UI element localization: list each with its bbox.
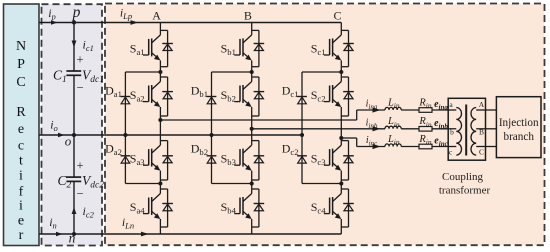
inductor L_in (phase a) bbox=[385, 107, 401, 110]
IGBT switch Sb2 with antiparallel diode bbox=[234, 77, 264, 116]
current arrow i_o bbox=[58, 133, 65, 138]
label C1 bbox=[53, 68, 67, 86]
label + (C2) bbox=[76, 159, 83, 173]
wire: clamp branch Db to node2 bbox=[212, 183, 252, 185]
wire: clamp branch vertical Da bbox=[124, 72, 126, 184]
current arrow i_Ln bbox=[141, 232, 149, 237]
wire: L_in to R_in (phase c) bbox=[401, 146, 419, 148]
label R_in (phase a) bbox=[418, 97, 432, 110]
wire: node to clamp branch Dc bbox=[302, 71, 341, 73]
label i_Lp bbox=[120, 6, 132, 22]
junction node Sc3-Sc4 bbox=[339, 181, 343, 185]
label Dc1 bbox=[282, 84, 299, 100]
IGBT switch Sb3 with antiparallel diode bbox=[234, 141, 264, 180]
wire: transformer C to injection branch bbox=[486, 146, 497, 148]
junction node Sb1-Sb2 bbox=[250, 70, 254, 74]
label L_in (phase b) bbox=[387, 116, 400, 129]
label Dc2 bbox=[282, 142, 299, 158]
current arrow i_Lp bbox=[131, 20, 139, 25]
label - (C2) bbox=[76, 186, 83, 200]
phase c output node bbox=[339, 136, 343, 140]
transformer secondary winding bbox=[471, 108, 476, 156]
node p bbox=[72, 20, 76, 24]
wire: transformer B to injection branch bbox=[486, 128, 497, 130]
IGBT switch Sc2 with antiparallel diode bbox=[324, 77, 354, 116]
transformer primary winding bbox=[456, 108, 461, 156]
label o bbox=[65, 134, 72, 149]
node C top label bbox=[333, 9, 341, 23]
wire: o to C2 bbox=[73, 135, 75, 177]
svg-text:Injection: Injection bbox=[499, 117, 539, 129]
IGBT switch Sa3 with antiparallel diode bbox=[143, 141, 173, 180]
wire: L_in to R_in (phase a) bbox=[401, 109, 419, 111]
wire: phase a output bbox=[160, 110, 385, 120]
wire: negative rail n bbox=[39, 233, 341, 235]
wire: Sa3 to Sa4 bbox=[159, 180, 161, 189]
svg-text:Coupling: Coupling bbox=[442, 171, 483, 183]
label e_inc bbox=[434, 136, 447, 149]
label Sb3 bbox=[221, 152, 236, 168]
wire: rail p to Sc1 bbox=[340, 23, 342, 31]
node o bbox=[72, 133, 76, 137]
svg-text:B: B bbox=[244, 9, 252, 23]
label i_ina bbox=[366, 99, 378, 112]
junction clamp-c to neutral rail bbox=[300, 133, 304, 137]
junction clamp-b to neutral rail bbox=[209, 133, 213, 137]
label i_o bbox=[50, 118, 58, 134]
svg-text:i: i bbox=[19, 169, 23, 184]
svg-text:+: + bbox=[76, 53, 83, 67]
label i_n bbox=[49, 215, 57, 231]
wire: rail p to Sa1 bbox=[159, 23, 161, 31]
capacitor C2 bbox=[66, 177, 81, 181]
clamp diode Db2 bbox=[207, 156, 217, 163]
clamp diode Dc1 bbox=[297, 97, 307, 104]
label Coupling transformer bbox=[439, 171, 491, 196]
node A top label bbox=[152, 9, 161, 23]
IGBT switch Sb4 with antiparallel diode bbox=[234, 189, 264, 227]
junction node Sb3-Sb4 bbox=[250, 181, 254, 185]
label V_dc1 bbox=[82, 68, 104, 86]
svg-text:B: B bbox=[479, 128, 484, 137]
label R_in (phase c) bbox=[418, 134, 432, 147]
label n bbox=[69, 231, 76, 246]
label Sc4 bbox=[311, 200, 327, 216]
label Da1 bbox=[105, 84, 122, 100]
wire: primary stub c bbox=[448, 146, 456, 148]
label - (C1) bbox=[76, 81, 83, 95]
svg-text:A: A bbox=[479, 100, 485, 109]
inductor L_in (phase c) bbox=[385, 144, 401, 147]
phase b output node bbox=[250, 127, 254, 131]
wire: secondary stub B bbox=[476, 128, 485, 130]
wire: clamp branch vertical Db bbox=[211, 72, 213, 184]
clamp diode Da2 bbox=[121, 156, 131, 163]
label i_p bbox=[48, 6, 56, 22]
current arrow i_inc bbox=[373, 144, 381, 149]
current arrow i_c2 bbox=[72, 207, 77, 214]
inverter region (dashed orange box) bbox=[105, 4, 545, 246]
clamp diode Da1 bbox=[121, 97, 131, 104]
wire: Sb2 to Sb3 bbox=[251, 116, 253, 141]
resistor R_in (phase c) bbox=[419, 144, 432, 149]
label L_in (phase a) bbox=[387, 97, 400, 110]
svg-text:i: i bbox=[19, 199, 23, 214]
svg-text:P: P bbox=[17, 57, 25, 72]
label Sa1 bbox=[130, 41, 145, 57]
label V_dc2 bbox=[82, 173, 104, 191]
wire: C2 to n bbox=[73, 181, 75, 234]
label Sb2 bbox=[221, 88, 236, 104]
wire: secondary stub A bbox=[476, 109, 485, 111]
label p bbox=[72, 4, 81, 21]
wire: Sb4 to rail n bbox=[251, 227, 253, 234]
wire: L_in to R_in (phase b) bbox=[401, 128, 419, 130]
svg-text:f: f bbox=[19, 184, 24, 199]
wire: Sc2 to Sc3 bbox=[340, 116, 342, 141]
junction node Sa1-Sa2 bbox=[158, 70, 162, 74]
NPC Rectifier block bbox=[4, 4, 40, 246]
current arrow i_p bbox=[51, 20, 58, 25]
label b (transformer) bbox=[450, 128, 454, 137]
node B top label bbox=[244, 9, 252, 23]
svg-text:R: R bbox=[16, 105, 26, 120]
svg-text:c: c bbox=[18, 139, 24, 154]
current arrow i_ina bbox=[373, 107, 381, 112]
svg-text:A: A bbox=[152, 9, 161, 23]
label i_c1 bbox=[83, 38, 94, 54]
wire: Sa2 to Sa3 bbox=[159, 116, 161, 141]
wire: secondary stub C bbox=[476, 146, 485, 148]
IGBT switch Sc1 with antiparallel diode bbox=[324, 30, 354, 66]
label a (transformer) bbox=[449, 100, 453, 109]
label Db2 bbox=[191, 142, 208, 158]
svg-text:C: C bbox=[16, 75, 25, 90]
wire: rail p to Sb1 bbox=[251, 23, 253, 31]
svg-text:transformer: transformer bbox=[439, 184, 491, 196]
svg-text:branch: branch bbox=[503, 131, 534, 143]
label Sa2 bbox=[130, 88, 145, 104]
label A (transformer) bbox=[479, 100, 485, 109]
junction node Sa3-Sa4 bbox=[158, 181, 162, 185]
label Db1 bbox=[191, 84, 208, 100]
coupling transformer box bbox=[448, 98, 485, 160]
wire: primary stub a bbox=[448, 109, 456, 111]
junction clamp-a to neutral rail bbox=[123, 133, 127, 137]
wire: node to clamp branch Db bbox=[212, 71, 252, 73]
svg-text:+: + bbox=[76, 159, 83, 173]
wire: clamp branch Da to node2 bbox=[125, 183, 160, 185]
IGBT switch Sc4 with antiparallel diode bbox=[324, 189, 354, 227]
current arrow i_inb bbox=[373, 126, 381, 131]
svg-text:N: N bbox=[16, 39, 26, 54]
capacitor C1 bbox=[66, 71, 81, 75]
wire: R_in to transformer (phase b) bbox=[432, 128, 448, 130]
svg-text:o: o bbox=[65, 134, 72, 149]
svg-text:−: − bbox=[76, 186, 83, 200]
IGBT switch Sb1 with antiparallel diode bbox=[234, 30, 264, 66]
wire: Sb1 to Sb2 bbox=[251, 67, 253, 77]
wire: positive rail p bbox=[39, 22, 341, 24]
wire: phase b output bbox=[252, 128, 385, 130]
current arrow i_c1 bbox=[72, 41, 77, 48]
svg-text:t: t bbox=[19, 154, 23, 169]
IGBT switch Sa1 with antiparallel diode bbox=[143, 30, 173, 66]
IGBT switch Sa2 with antiparallel diode bbox=[143, 77, 173, 116]
label Sc2 bbox=[311, 88, 326, 104]
label e_ina bbox=[434, 99, 448, 112]
wire: phase c output bbox=[341, 138, 385, 147]
label Sa3 bbox=[130, 152, 145, 168]
wire: Sc1 to Sc2 bbox=[340, 67, 342, 77]
wire: Sa4 to rail n bbox=[159, 227, 161, 234]
label Sc1 bbox=[311, 41, 326, 57]
resistor R_in (phase a) bbox=[419, 108, 432, 113]
junction node Sc1-Sc2 bbox=[339, 70, 343, 74]
injection branch box bbox=[496, 97, 541, 158]
svg-text:p: p bbox=[72, 4, 81, 21]
label i_Ln bbox=[122, 215, 134, 231]
label i_inc bbox=[366, 135, 378, 148]
IGBT switch Sc3 with antiparallel diode bbox=[324, 141, 354, 180]
wire: Sc3 to Sc4 bbox=[340, 180, 342, 189]
wire: Sc4 to rail n bbox=[340, 227, 342, 234]
node n bbox=[72, 232, 76, 236]
label L_in (phase c) bbox=[387, 134, 400, 147]
svg-text:C: C bbox=[333, 9, 341, 23]
wire: clamp branch vertical Dc bbox=[301, 72, 303, 184]
wire: R_in to transformer (phase a) bbox=[432, 109, 448, 111]
clamp diode Db1 bbox=[207, 97, 217, 104]
label Sc3 bbox=[311, 152, 326, 168]
label R_in (phase b) bbox=[418, 116, 432, 129]
label Sa4 bbox=[130, 200, 146, 216]
label i_c2 bbox=[83, 204, 95, 220]
wire: primary stub b bbox=[448, 128, 456, 130]
label Sb4 bbox=[221, 200, 237, 216]
IGBT switch Sa4 with antiparallel diode bbox=[143, 189, 173, 227]
current arrow i_n bbox=[56, 232, 63, 237]
svg-text:r: r bbox=[19, 228, 24, 243]
wire: p to C1 bbox=[73, 23, 75, 72]
label c (transformer) bbox=[449, 148, 453, 157]
wire: neutral rail o bbox=[39, 134, 302, 136]
inductor L_in (phase b) bbox=[385, 126, 401, 129]
dc-link region (dashed gray box) bbox=[42, 4, 103, 245]
svg-text:e: e bbox=[18, 122, 24, 137]
wire: clamp branch Dc to node2 bbox=[302, 183, 341, 185]
label B (transformer) bbox=[479, 128, 484, 137]
resistor R_in (phase b) bbox=[419, 127, 432, 132]
wire: Sa1 to Sa2 bbox=[159, 67, 161, 77]
wire: node to clamp branch Da bbox=[125, 71, 160, 73]
clamp diode Dc2 bbox=[297, 156, 307, 163]
label Injection branch bbox=[499, 117, 539, 143]
svg-text:b: b bbox=[450, 128, 454, 137]
label Sb1 bbox=[221, 41, 236, 57]
svg-text:e: e bbox=[18, 213, 24, 228]
label e_inb bbox=[434, 118, 448, 131]
wire: transformer A to injection branch bbox=[486, 109, 497, 111]
svg-text:C: C bbox=[479, 148, 484, 157]
NPC Rectifier label (vertical) bbox=[16, 39, 26, 243]
phase a output node bbox=[158, 118, 162, 122]
transformer core bbox=[465, 105, 467, 156]
label C2 bbox=[58, 173, 72, 191]
wire: Sb3 to Sb4 bbox=[251, 180, 253, 189]
label i_inb bbox=[366, 117, 378, 130]
label C (transformer) bbox=[479, 148, 484, 157]
label + (C1) bbox=[76, 53, 83, 67]
svg-text:−: − bbox=[76, 81, 83, 95]
wire: R_in to transformer (phase c) bbox=[432, 146, 448, 148]
wire: C1 to o bbox=[73, 75, 75, 135]
label Da2 bbox=[105, 142, 122, 158]
